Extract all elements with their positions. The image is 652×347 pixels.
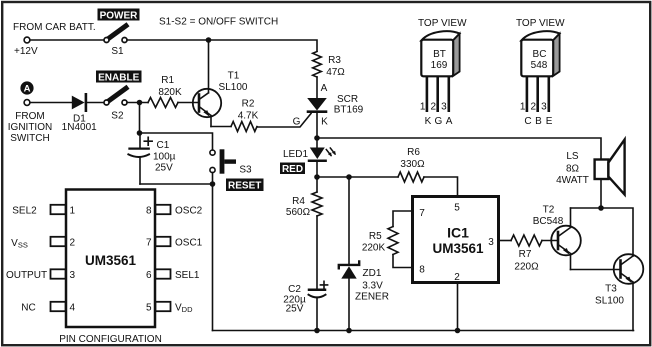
svg-text:8: 8	[146, 206, 152, 217]
svg-text:25V: 25V	[155, 163, 173, 174]
wire terminal to D1	[30, 102, 72, 104]
wire +12V to S1	[30, 39, 104, 41]
text T3 SL100	[595, 284, 624, 307]
text R2 4.7K	[238, 99, 259, 122]
svg-text:1N4001: 1N4001	[62, 122, 97, 133]
svg-text:PIN CONFIGURATION: PIN CONFIGURATION	[59, 334, 162, 345]
resistor R7 220	[511, 235, 542, 246]
text R5 220K	[362, 231, 386, 254]
text R4 560	[286, 196, 311, 218]
svg-text:220Ω: 220Ω	[514, 262, 539, 273]
label RESET	[226, 179, 264, 192]
node A terminal	[20, 81, 33, 105]
text from ignition switch	[8, 111, 52, 144]
svg-text:1: 1	[420, 101, 426, 112]
svg-text:K: K	[425, 116, 432, 127]
junction zener ground	[346, 328, 352, 334]
terminal +12V from car battery	[24, 37, 30, 43]
svg-text:T1: T1	[228, 71, 240, 82]
svg-text:ZENER: ZENER	[355, 292, 389, 303]
svg-text:IC1: IC1	[447, 225, 469, 241]
svg-text:3: 3	[441, 101, 447, 112]
node K junction	[314, 135, 320, 141]
capacitor C2 220u 25V	[309, 281, 328, 330]
text T2 BC548	[533, 205, 564, 228]
switch S1	[104, 26, 127, 43]
wire T1 emitter to R2	[211, 126, 231, 128]
svg-text:169: 169	[431, 60, 448, 71]
svg-text:7: 7	[146, 238, 152, 249]
svg-text:RED: RED	[282, 164, 303, 175]
svg-text:E: E	[546, 116, 553, 127]
label RED	[280, 163, 305, 176]
text R1 820K	[158, 75, 182, 98]
wire node to R6 and pin5	[317, 177, 458, 195]
text R6 330	[400, 147, 425, 170]
label POWER	[98, 9, 140, 22]
resistor R1 820K	[148, 98, 178, 108]
svg-text:S3: S3	[239, 165, 252, 176]
junction zener tap	[346, 174, 352, 180]
svg-text:4WATT: 4WATT	[556, 175, 589, 186]
svg-text:C: C	[524, 116, 531, 127]
wire C1 bottom to ground bus	[140, 184, 213, 331]
zener ZD1 3.3V	[339, 177, 359, 331]
note S1-S2 on/off switch	[159, 17, 278, 28]
svg-text:S1: S1	[111, 46, 124, 57]
svg-text:R1: R1	[161, 75, 174, 86]
svg-text:R3: R3	[328, 55, 341, 66]
LED1	[309, 138, 336, 177]
junction C2 ground	[314, 328, 320, 334]
junction C1 top	[137, 130, 143, 136]
ground bus wire	[213, 330, 634, 332]
svg-text:SCR: SCR	[337, 94, 358, 105]
svg-text:T2: T2	[543, 205, 555, 216]
text T1 SL100	[219, 71, 248, 94]
wire S1 to R3 top corner	[127, 40, 317, 51]
text S2	[111, 111, 124, 122]
svg-text:8: 8	[419, 265, 425, 276]
resistor R2 4.7K	[231, 122, 257, 132]
svg-text:ZD1: ZD1	[363, 268, 382, 279]
svg-text:548: 548	[531, 60, 548, 71]
svg-text:SL100: SL100	[219, 82, 248, 93]
svg-text:220K: 220K	[362, 243, 386, 254]
svg-text:2: 2	[431, 101, 437, 112]
resistor R3	[313, 52, 322, 78]
label ENABLE	[96, 71, 142, 84]
svg-text:SL100: SL100	[595, 296, 624, 307]
svg-text:A: A	[24, 84, 31, 95]
svg-text:UM3561: UM3561	[432, 241, 484, 256]
svg-text:VSS: VSS	[11, 238, 28, 250]
svg-text:BC: BC	[533, 49, 547, 60]
svg-text:K: K	[321, 117, 328, 128]
svg-text:3.3V: 3.3V	[362, 281, 383, 292]
svg-text:C2: C2	[288, 284, 301, 295]
svg-text:A: A	[321, 83, 328, 94]
svg-text:SEL2: SEL2	[12, 206, 37, 217]
svg-text:7: 7	[419, 208, 425, 219]
wire R3 to SCR anode	[316, 77, 318, 98]
svg-text:3: 3	[70, 270, 76, 281]
svg-text:R4: R4	[292, 196, 305, 207]
resistor R5 220K	[388, 227, 398, 255]
svg-text:BT: BT	[433, 49, 446, 60]
svg-text:POWER: POWER	[100, 10, 139, 21]
junction S3 bottom	[210, 181, 216, 187]
wire T2 collector to T3 collector	[571, 208, 634, 256]
text R7 220	[514, 249, 539, 273]
transistor T3 SL100	[614, 254, 644, 330]
text C1 values	[153, 140, 176, 174]
svg-text:R2: R2	[242, 99, 255, 110]
svg-text:T3: T3	[605, 284, 617, 295]
svg-text:A: A	[446, 116, 453, 127]
text LED1	[283, 149, 308, 160]
svg-text:2: 2	[531, 101, 537, 112]
pushbutton S3	[210, 149, 236, 181]
wire S2 to R1	[127, 102, 148, 104]
svg-text:S1-S2 = ON/OFF SWITCH: S1-S2 = ON/OFF SWITCH	[159, 17, 278, 28]
svg-text:R6: R6	[407, 147, 420, 158]
svg-text:VDD: VDD	[175, 303, 193, 315]
wire R1 to T1 base	[178, 102, 198, 104]
svg-text:1: 1	[520, 101, 526, 112]
svg-text:OSC1: OSC1	[175, 238, 203, 249]
svg-text:SEL1: SEL1	[175, 270, 200, 281]
capacitor C1 100u 25V	[128, 133, 152, 184]
svg-text:4: 4	[70, 303, 76, 314]
svg-text:2: 2	[70, 238, 76, 249]
speaker LS	[595, 140, 625, 206]
diode D1 1N4001	[72, 94, 104, 110]
svg-text:R7: R7	[519, 249, 532, 260]
svg-text:100µ: 100µ	[153, 152, 176, 163]
svg-text:2: 2	[454, 272, 460, 283]
transistor T2 BC548	[551, 208, 581, 270]
wire R7 to T2 base	[542, 240, 557, 242]
resistor R6 330	[398, 172, 424, 182]
svg-text:S2: S2	[111, 111, 124, 122]
UM3561 pin configuration diagram	[6, 190, 203, 346]
svg-text:+12V: +12V	[14, 46, 38, 57]
text C2 values	[283, 284, 306, 315]
junction S2/R1/C1	[137, 100, 143, 106]
text S1	[111, 46, 124, 57]
svg-text:G: G	[293, 117, 301, 128]
package BC548 top view	[516, 18, 565, 127]
IC1 UM3561 box	[393, 197, 511, 331]
svg-text:560Ω: 560Ω	[286, 207, 311, 218]
text R3 47	[326, 55, 345, 78]
svg-text:3: 3	[488, 237, 494, 248]
text SCR labels	[293, 83, 364, 128]
svg-text:IGNITION: IGNITION	[8, 122, 52, 133]
svg-text:3: 3	[541, 101, 547, 112]
svg-text:FROM CAR BATT.: FROM CAR BATT.	[13, 22, 96, 33]
text ZD1 zener	[355, 268, 389, 303]
svg-text:C1: C1	[157, 140, 170, 151]
svg-text:1: 1	[70, 206, 76, 217]
svg-text:TOP VIEW: TOP VIEW	[418, 18, 467, 29]
svg-text:R5: R5	[369, 231, 382, 242]
wire C1 branch	[140, 103, 213, 151]
junction LED cathode	[314, 174, 320, 180]
svg-text:OSC2: OSC2	[175, 206, 203, 217]
text IC1 pins	[419, 203, 494, 284]
svg-text:NC: NC	[21, 303, 35, 314]
svg-text:FROM: FROM	[15, 111, 44, 122]
junction IC pin2 ground	[455, 328, 461, 334]
svg-text:UM3561: UM3561	[85, 253, 137, 268]
svg-text:25V: 25V	[286, 304, 304, 315]
text from car batt	[13, 22, 96, 57]
resistor R4 560	[312, 177, 322, 289]
svg-text:TOP VIEW: TOP VIEW	[516, 18, 565, 29]
wire T2 emitter to T3 base	[571, 269, 620, 271]
SCR BT169	[307, 98, 327, 136]
svg-text:ENABLE: ENABLE	[98, 72, 139, 83]
text node A letter	[24, 84, 31, 95]
package BT169 top view	[418, 18, 467, 127]
junction speaker bottom	[598, 205, 604, 211]
transistor T1 SL100	[193, 40, 221, 127]
svg-text:4.7K: 4.7K	[238, 111, 259, 122]
svg-text:BC548: BC548	[533, 216, 564, 227]
svg-text:SWITCH: SWITCH	[10, 133, 49, 144]
wire SCR gate	[257, 114, 311, 128]
svg-text:5: 5	[146, 303, 152, 314]
svg-text:RESET: RESET	[228, 181, 261, 192]
text S3	[239, 165, 252, 176]
junction node T1 collector on +12V rail	[206, 37, 212, 43]
switch S2	[104, 88, 127, 105]
svg-text:LED1: LED1	[283, 149, 308, 160]
svg-text:820K: 820K	[158, 87, 182, 98]
svg-text:BT169: BT169	[334, 105, 364, 116]
svg-text:OUTPUT: OUTPUT	[6, 270, 47, 281]
svg-text:5: 5	[454, 203, 460, 214]
svg-text:LS: LS	[566, 151, 579, 162]
wire cathode rail to speaker	[317, 138, 601, 159]
svg-text:8Ω: 8Ω	[566, 163, 580, 174]
svg-text:47Ω: 47Ω	[326, 67, 345, 78]
text LS speaker	[556, 151, 589, 186]
svg-text:G: G	[435, 116, 443, 127]
text D1 1N4001	[62, 114, 97, 133]
svg-text:B: B	[535, 116, 542, 127]
svg-text:6: 6	[146, 270, 152, 281]
svg-text:330Ω: 330Ω	[400, 159, 425, 170]
